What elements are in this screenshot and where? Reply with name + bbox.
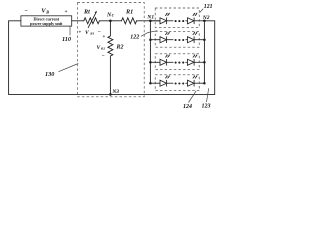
svg-text:−: −: [102, 54, 105, 60]
svg-text:−: −: [25, 8, 29, 14]
LED D12: [188, 18, 195, 24]
svg-text:124: 124: [183, 104, 192, 110]
pointer line for label 110: [69, 26, 71, 35]
wire dots to LED 32: [185, 61, 187, 63]
emission arrows LED row 4 at x=192.8: [193, 75, 198, 78]
svg-text:N2: N2: [202, 15, 210, 21]
svg-text:R2: R2: [101, 47, 105, 51]
LED D31: [160, 59, 167, 65]
svg-text:123: 123: [202, 104, 211, 110]
svg-text:N3: N3: [111, 89, 119, 95]
ellipsis dots row 4: [175, 82, 177, 84]
wire box left to left rail and down: [9, 21, 21, 95]
resistor R2 with leads: [108, 21, 113, 95]
wire box to resistor Rt: [72, 20, 84, 22]
LED string 124 dashed enclosure: [155, 75, 199, 91]
svg-text:c: c: [112, 14, 115, 19]
left LED bus wire: [149, 21, 151, 83]
junction dot right bus row 2: [203, 38, 206, 41]
ellipsis dots row 3: [175, 62, 177, 64]
wire LED 42 to bus: [194, 82, 204, 84]
emission arrows LED row 2 at x=192.8: [193, 32, 198, 35]
LED string 121 dashed enclosure: [155, 8, 199, 27]
svg-text:+: +: [79, 30, 82, 35]
pointer line for label 124: [189, 91, 197, 103]
svg-text:+: +: [103, 35, 106, 40]
LED D11: [160, 18, 167, 24]
pointer line for label 130: [59, 64, 79, 72]
emission arrows LED row 1 at x=165.3: [165, 13, 170, 16]
wire right rail: [214, 21, 216, 95]
svg-text:−: −: [98, 29, 101, 35]
node N2 junction dot: [203, 20, 206, 23]
LED string 123 dashed enclosure: [155, 54, 199, 70]
LED string 122 dashed enclosure: [155, 31, 199, 47]
LED D42: [188, 80, 195, 86]
wire bottom rail: [9, 93, 215, 95]
emission arrows LED row 1 at x=192.8: [193, 13, 198, 16]
wire bus to LED 11: [150, 20, 160, 22]
wire bus to LED 31: [150, 61, 160, 63]
wire bus to LED 41: [150, 82, 160, 84]
junction dot left bus row 2: [149, 38, 152, 41]
svg-text:R2: R2: [116, 45, 124, 51]
power supply box 110: [21, 16, 72, 26]
wire LED 41 to dots: [167, 82, 174, 84]
wire LED 21 to dots: [167, 39, 174, 41]
junction dot left bus row 4: [149, 82, 152, 85]
LED D32: [188, 59, 195, 65]
emission arrows LED row 2 at x=165.3: [165, 32, 170, 35]
wire dots to LED 42: [185, 82, 187, 84]
emission arrows LED row 4 at x=165.3: [165, 75, 170, 78]
wire LED 12 to bus: [194, 20, 204, 22]
emission arrows LED row 3 at x=192.8: [193, 54, 198, 57]
junction dot right bus row 3: [203, 61, 206, 64]
wire LED 31 to dots: [167, 61, 174, 63]
svg-text:122: 122: [130, 34, 139, 40]
svg-text:power supply unit: power supply unit: [30, 21, 63, 26]
resistor R1 zigzag: [122, 18, 137, 24]
wire LED 11 to dots: [167, 20, 174, 22]
svg-text:130: 130: [45, 71, 54, 78]
svg-text:B: B: [45, 9, 49, 14]
dashed box 130: [77, 3, 144, 97]
wire dots to LED 12: [185, 20, 187, 22]
pointer line for label 123: [207, 88, 209, 102]
wire bus to LED 21: [150, 39, 160, 41]
LED D41: [160, 80, 167, 86]
LED D22: [188, 37, 195, 43]
resistor Rt zigzag: [84, 18, 100, 24]
node N3 junction dot: [109, 93, 112, 96]
wire Rt to node Nc: [99, 20, 121, 22]
svg-text:110: 110: [62, 36, 71, 43]
svg-text:Rt: Rt: [83, 8, 90, 15]
right LED bus wire: [203, 21, 205, 83]
wire LED 22 to bus: [194, 39, 204, 41]
svg-text:121: 121: [204, 4, 213, 10]
emission arrows LED row 3 at x=165.3: [165, 54, 170, 57]
arrow of variable resistor Rt: [88, 12, 96, 27]
pointer line for label 122: [141, 31, 157, 37]
pointer line for label 121: [200, 9, 204, 13]
svg-text:N1: N1: [146, 15, 154, 21]
wire R1 to node N1: [137, 20, 160, 22]
junction dot left bus row 3: [149, 61, 152, 64]
wire dots to LED 22: [185, 39, 187, 41]
svg-text:+: +: [65, 9, 68, 15]
junction dot right bus row 4: [203, 82, 206, 85]
LED D21: [160, 37, 167, 43]
ellipsis dots row 1: [175, 20, 177, 22]
node Nc junction dot: [109, 20, 112, 23]
node N1 junction dot: [149, 20, 152, 23]
ellipsis dots row 2: [175, 39, 177, 41]
svg-text:R1: R1: [90, 32, 94, 36]
svg-text:R1: R1: [125, 8, 133, 15]
wire N2 to right rail: [204, 20, 214, 22]
wire LED 32 to bus: [194, 61, 204, 63]
